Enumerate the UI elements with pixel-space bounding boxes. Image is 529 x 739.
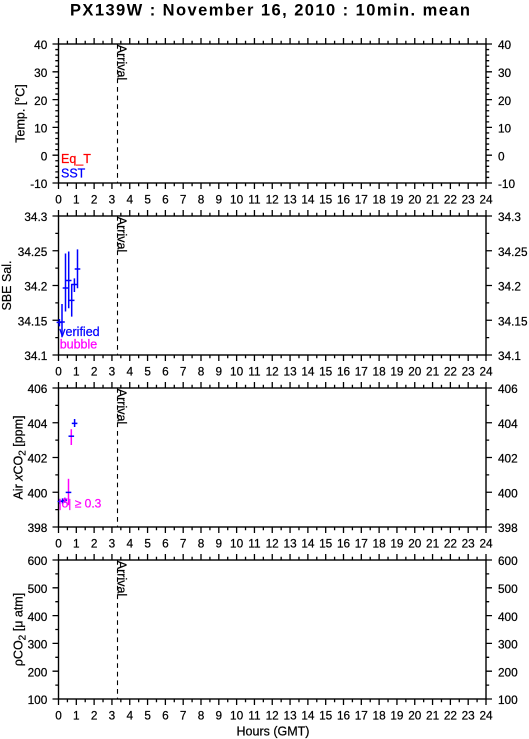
svg-text:34.3: 34.3: [24, 210, 47, 224]
svg-text:300: 300: [498, 638, 518, 652]
svg-text:400: 400: [28, 610, 48, 624]
svg-text:10: 10: [230, 364, 244, 378]
panel 2 data: salinity error bar 2 with mean tick: [59, 304, 65, 337]
svg-text:12: 12: [266, 708, 279, 722]
panel 2 data: salinity error bar 3 with mean tick: [63, 254, 69, 312]
svg-text:Arrival: Arrival: [115, 45, 129, 80]
svg-text:13: 13: [284, 192, 298, 206]
svg-text:Temp. [°C]: Temp. [°C]: [13, 84, 27, 142]
svg-text:406: 406: [498, 382, 518, 396]
panel 4 y-axis minor ticks: [55, 574, 489, 685]
svg-text:Eq_T: Eq_T: [61, 152, 91, 166]
svg-text:17: 17: [355, 708, 368, 722]
svg-text:3: 3: [109, 364, 116, 378]
svg-text:3: 3: [109, 536, 116, 550]
svg-text:14: 14: [301, 536, 315, 550]
svg-text:40: 40: [34, 38, 48, 52]
svg-text:10: 10: [230, 708, 244, 722]
svg-text:9: 9: [216, 364, 223, 378]
svg-text:22: 22: [444, 192, 457, 206]
panel 2 axis frame: [59, 216, 487, 355]
svg-text:404: 404: [498, 417, 518, 431]
panel 4 y-axis tick labels right: [498, 554, 518, 707]
svg-text:200: 200: [28, 665, 48, 679]
svg-text:8: 8: [198, 192, 205, 206]
svg-text:14: 14: [301, 364, 315, 378]
panel 3 x-axis tick labels 0-24: [55, 536, 493, 550]
svg-text:0: 0: [41, 149, 48, 163]
svg-text:500: 500: [498, 582, 518, 596]
svg-text:20: 20: [408, 192, 422, 206]
svg-text:15: 15: [319, 192, 333, 206]
svg-text:Arrival: Arrival: [115, 217, 129, 252]
svg-text:18: 18: [373, 708, 387, 722]
svg-text:Hours (GMT): Hours (GMT): [237, 724, 310, 738]
svg-text:-10: -10: [30, 177, 47, 191]
svg-text:16: 16: [337, 192, 351, 206]
svg-text:|δ| ≥ 0.3: |δ| ≥ 0.3: [59, 497, 102, 511]
svg-text:23: 23: [462, 364, 476, 378]
svg-text:3: 3: [109, 192, 116, 206]
svg-text:10: 10: [230, 536, 244, 550]
panel 3 y-axis tick labels right: [498, 382, 518, 535]
svg-text:8: 8: [198, 708, 205, 722]
svg-text:4: 4: [127, 708, 134, 722]
svg-text:10: 10: [230, 192, 244, 206]
svg-text:2: 2: [91, 192, 98, 206]
svg-text:Arrival: Arrival: [115, 389, 129, 424]
panel 3 data: small blue xCO2 cross 1: [58, 499, 62, 504]
svg-text:20: 20: [408, 536, 422, 550]
svg-text:34.25: 34.25: [498, 245, 528, 259]
svg-text:23: 23: [462, 192, 476, 206]
svg-text:1: 1: [73, 536, 80, 550]
svg-text:30: 30: [34, 66, 48, 80]
svg-text:15: 15: [319, 364, 333, 378]
svg-text:406: 406: [28, 382, 48, 396]
svg-text:7: 7: [180, 536, 187, 550]
svg-text:24: 24: [479, 708, 493, 722]
svg-text:10: 10: [34, 122, 48, 136]
svg-text:34.2: 34.2: [24, 280, 47, 294]
panel 3 Arrival event dashed vertical line at hour 3.3: [117, 388, 119, 527]
svg-text:1: 1: [73, 192, 80, 206]
svg-text:12: 12: [266, 192, 279, 206]
panel 1 axis frame: [59, 44, 487, 183]
svg-text:4: 4: [127, 364, 134, 378]
svg-text:400: 400: [28, 486, 48, 500]
svg-text:2: 2: [91, 364, 98, 378]
panel 3 data: flagged xCO2 error bar 1 (magenta): [68, 479, 70, 505]
svg-text:24: 24: [479, 364, 493, 378]
svg-text:2: 2: [91, 536, 98, 550]
svg-text:1: 1: [73, 364, 80, 378]
panel 3 x-axis major ticks (hourly, outward): [59, 382, 487, 533]
svg-text:21: 21: [426, 708, 439, 722]
svg-text:7: 7: [180, 708, 187, 722]
svg-text:10: 10: [498, 122, 512, 136]
panel 4 x-axis tick labels 0-24: [55, 708, 493, 722]
panel 3 data: small blue xCO2 cross 3: [63, 498, 67, 503]
svg-text:100: 100: [498, 693, 518, 707]
panel 2 x-axis tick labels 0-24: [55, 364, 493, 378]
svg-text:7: 7: [180, 364, 187, 378]
svg-text:22: 22: [444, 536, 457, 550]
svg-text:404: 404: [28, 417, 48, 431]
svg-text:1: 1: [73, 708, 80, 722]
svg-text:16: 16: [337, 536, 351, 550]
panel 2 data: salinity error bar 1 with mean tick: [57, 319, 63, 326]
panel 1 y-axis tick labels left: [30, 38, 48, 191]
svg-text:16: 16: [337, 364, 351, 378]
svg-text:20: 20: [408, 364, 422, 378]
svg-text:9: 9: [216, 536, 223, 550]
svg-text:2: 2: [91, 708, 98, 722]
panel 3 y-axis tick labels left: [28, 382, 48, 535]
panel 1 x-axis tick labels 0-24: [55, 192, 493, 206]
svg-text:300: 300: [28, 638, 48, 652]
svg-text:11: 11: [248, 192, 260, 206]
svg-text:600: 600: [28, 554, 48, 568]
svg-text:23: 23: [462, 536, 476, 550]
svg-text:13: 13: [284, 536, 298, 550]
svg-text:6: 6: [162, 192, 169, 206]
svg-text:20: 20: [34, 94, 48, 108]
panel 2 y-axis tick labels left: [18, 210, 48, 363]
svg-text:SST: SST: [61, 166, 86, 180]
svg-text:500: 500: [28, 582, 48, 596]
svg-text:402: 402: [498, 452, 518, 466]
panel 1 y-axis minor ticks: [55, 50, 489, 178]
svg-text:17: 17: [355, 536, 368, 550]
panel 3 axis frame: [59, 388, 487, 527]
panel 2 y-axis major ticks: [53, 216, 493, 355]
svg-text:12: 12: [266, 536, 279, 550]
svg-text:20: 20: [408, 708, 422, 722]
svg-text:0: 0: [55, 192, 62, 206]
svg-text:6: 6: [162, 708, 169, 722]
svg-text:24: 24: [479, 192, 493, 206]
panel 4 Arrival event dashed vertical line at hour 3.3: [117, 560, 119, 699]
panel 1 x-axis major ticks (hourly, outward): [59, 38, 487, 189]
svg-text:400: 400: [498, 486, 518, 500]
panel 2 x-axis major ticks (hourly, outward): [59, 210, 487, 361]
svg-text:398: 398: [28, 521, 48, 535]
svg-text:19: 19: [390, 708, 403, 722]
svg-text:6: 6: [162, 364, 169, 378]
svg-text:18: 18: [373, 536, 387, 550]
svg-text:bubble: bubble: [60, 338, 98, 352]
svg-text:34.25: 34.25: [18, 245, 48, 259]
svg-text:-10: -10: [498, 177, 515, 191]
svg-text:17: 17: [355, 364, 368, 378]
panel 3 y-axis minor ticks: [55, 405, 489, 509]
svg-text:3: 3: [109, 708, 116, 722]
svg-text:13: 13: [284, 364, 298, 378]
panel 2 x-axis minor ticks (half-hour): [67, 213, 477, 358]
svg-text:398: 398: [498, 521, 518, 535]
svg-text:16: 16: [337, 708, 351, 722]
panel 2 Arrival event dashed vertical line at hour 3.3: [117, 216, 119, 355]
panel 2 data: salinity error bar 4 with mean tick: [66, 252, 72, 309]
panel 2 data: salinity error bar 6 with mean tick: [72, 278, 78, 292]
svg-text:8: 8: [198, 364, 205, 378]
panel 4 axis frame: [59, 560, 487, 699]
svg-text:4: 4: [127, 192, 134, 206]
panel 4 x-axis minor ticks (half-hour): [67, 557, 477, 702]
svg-text:23: 23: [462, 708, 476, 722]
svg-text:34.15: 34.15: [498, 314, 528, 328]
svg-text:11: 11: [248, 708, 260, 722]
panel 4 y-axis tick labels left: [28, 554, 48, 707]
panel 3 data: mean tick 1 (blue): [66, 491, 72, 493]
svg-text:12: 12: [266, 364, 279, 378]
svg-text:5: 5: [144, 364, 151, 378]
svg-text:14: 14: [301, 192, 315, 206]
svg-text:0: 0: [55, 708, 62, 722]
svg-text:PX139W : November 16, 2010 : 1: PX139W : November 16, 2010 : 10min. mean: [70, 1, 472, 19]
svg-text:18: 18: [373, 192, 387, 206]
svg-text:Arrival: Arrival: [115, 561, 129, 596]
svg-text:0: 0: [55, 364, 62, 378]
svg-text:6: 6: [162, 536, 169, 550]
svg-text:8: 8: [198, 536, 205, 550]
svg-text:18: 18: [373, 364, 387, 378]
svg-text:100: 100: [28, 693, 48, 707]
svg-text:200: 200: [498, 665, 518, 679]
svg-text:0: 0: [55, 536, 62, 550]
svg-text:11: 11: [248, 536, 260, 550]
panel 2 data: salinity error bar 5 with mean tick: [69, 284, 75, 317]
svg-text:34.15: 34.15: [18, 314, 48, 328]
svg-text:22: 22: [444, 364, 457, 378]
panel 2 data: salinity error bar 7 with mean tick: [75, 249, 81, 288]
svg-text:7: 7: [180, 192, 187, 206]
panel 3 x-axis minor ticks (half-hour): [67, 385, 477, 530]
svg-text:19: 19: [390, 192, 403, 206]
svg-text:19: 19: [390, 364, 403, 378]
panel 3 data: mean tick 2 (blue): [69, 435, 75, 437]
svg-text:5: 5: [144, 708, 151, 722]
svg-text:21: 21: [426, 192, 439, 206]
svg-text:15: 15: [319, 536, 333, 550]
svg-text:15: 15: [319, 708, 333, 722]
svg-text:402: 402: [28, 452, 48, 466]
svg-text:24: 24: [479, 536, 493, 550]
panel 4 y-axis major ticks: [53, 560, 493, 699]
panel 1 y-axis tick labels right: [498, 38, 515, 191]
svg-text:9: 9: [216, 192, 223, 206]
svg-text:21: 21: [426, 364, 439, 378]
svg-text:5: 5: [144, 536, 151, 550]
svg-text:17: 17: [355, 192, 368, 206]
svg-text:34.3: 34.3: [498, 210, 521, 224]
svg-text:21: 21: [426, 536, 439, 550]
svg-text:34.1: 34.1: [24, 349, 47, 363]
panel 3 data: small blue xCO2 cross 2: [60, 498, 64, 503]
panel 3 data: blue xCO2 error bar with mean tick: [72, 419, 78, 427]
svg-text:40: 40: [498, 38, 512, 52]
panel 2 y-axis minor ticks: [55, 233, 489, 337]
panel 1 Arrival event dashed vertical line at hour 3.3: [117, 44, 119, 183]
panel 3 data: flagged xCO2 error bar 2 (magenta): [70, 429, 72, 445]
svg-text:11: 11: [248, 364, 260, 378]
svg-text:19: 19: [390, 536, 403, 550]
svg-text:20: 20: [498, 94, 512, 108]
svg-text:600: 600: [498, 554, 518, 568]
panel 1 y-axis major ticks: [53, 44, 493, 183]
svg-text:13: 13: [284, 708, 298, 722]
panel 2 y-axis tick labels right: [498, 210, 528, 363]
svg-text:9: 9: [216, 708, 223, 722]
svg-text:14: 14: [301, 708, 315, 722]
panel 4 x-axis major ticks (hourly, outward): [59, 554, 487, 705]
svg-text:SBE Sal.: SBE Sal.: [0, 260, 14, 310]
svg-text:4: 4: [127, 536, 134, 550]
svg-text:5: 5: [144, 192, 151, 206]
svg-text:34.2: 34.2: [498, 280, 521, 294]
panel 3 y-axis major ticks: [53, 388, 493, 527]
svg-text:0: 0: [498, 149, 505, 163]
panel 1 x-axis minor ticks (half-hour): [67, 41, 477, 186]
svg-text:verified: verified: [59, 325, 99, 339]
svg-text:34.1: 34.1: [498, 349, 521, 363]
svg-text:30: 30: [498, 66, 512, 80]
svg-text:22: 22: [444, 708, 457, 722]
svg-text:400: 400: [498, 610, 518, 624]
